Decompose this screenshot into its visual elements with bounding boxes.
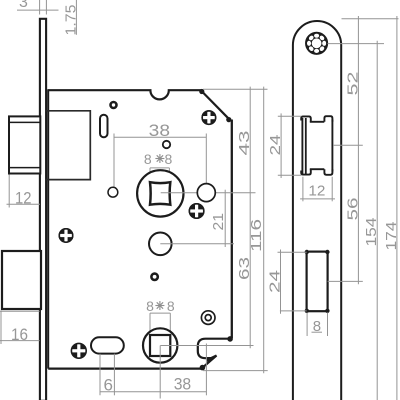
leader from center circle	[160, 243, 234, 245]
dim 24 lower extensions	[278, 252, 307, 311]
lock case right edge end dot	[227, 336, 233, 342]
svg-text:8: 8	[313, 318, 321, 335]
svg-text:16: 16	[11, 325, 28, 344]
lower square center line	[159, 346, 161, 399]
svg-text:63: 63	[236, 257, 253, 280]
double ring hole	[201, 311, 215, 325]
lock case hook cutout	[198, 339, 230, 368]
top edge extension	[203, 88, 268, 90]
latch bolt head	[9, 116, 40, 173]
latch bevel line bottom	[9, 167, 40, 169]
ring hole top	[111, 102, 117, 108]
latch cutout slot left line A	[301, 118, 303, 175]
svg-text:38: 38	[174, 374, 192, 393]
dim 8*8 lower extensions	[150, 313, 170, 335]
dim 174 line	[396, 16, 398, 400]
plate screw leader	[328, 43, 385, 45]
latch cutout slot top cap	[301, 116, 311, 121]
svg-text:24: 24	[266, 270, 283, 293]
phillips screw top-right	[201, 110, 216, 125]
phillips screw bottom	[71, 343, 87, 359]
svg-text:8: 8	[165, 151, 173, 167]
deadbolt head	[2, 251, 41, 309]
lock case chamfer	[203, 92, 230, 119]
latch cutout slot left line B	[305, 118, 307, 175]
svg-text:24: 24	[267, 135, 284, 156]
dim 8 extensions	[307, 313, 327, 337]
svg-text:52: 52	[344, 72, 361, 96]
dim 12 latch extension	[8, 175, 10, 208]
small ring hole	[151, 274, 157, 280]
phillips screw middle	[189, 203, 205, 219]
dim 16 lower line	[0, 340, 40, 342]
dim 8*8 lower text	[146, 298, 175, 314]
svg-text:6: 6	[104, 375, 113, 394]
leader from lower square center	[160, 345, 253, 347]
svg-text:8: 8	[146, 298, 154, 314]
svg-text:12: 12	[308, 182, 325, 199]
svg-text:1.75: 1.75	[63, 5, 80, 36]
lock case bottom corner dot	[200, 365, 206, 371]
latch cutout bottom-right relief	[324, 169, 332, 175]
hole circle right with leader	[197, 184, 215, 202]
spindle square hole upper	[150, 182, 170, 205]
latch cutout bottom edge	[310, 168, 325, 170]
oblong hole vertical	[100, 115, 108, 138]
dim 16 upper line	[0, 310, 40, 312]
svg-text:154: 154	[363, 218, 380, 247]
dim 8*8 upper extensions	[150, 168, 169, 182]
dim 38 top line	[114, 136, 206, 138]
dim 8 line	[312, 331, 323, 333]
oblong hole horizontal	[91, 337, 124, 353]
latch cutout right edge	[331, 120, 333, 172]
lock case front edge	[47, 89, 49, 368]
svg-text:3: 3	[19, 0, 28, 11]
plate screw hole	[306, 33, 327, 54]
lock case chamfer corner dot A	[199, 89, 204, 94]
svg-text:56: 56	[344, 198, 361, 221]
svg-text:38: 38	[149, 121, 170, 140]
strike plate outline	[293, 21, 341, 400]
dim 52-56 line	[357, 16, 359, 284]
dim 38 left extension	[113, 134, 115, 188]
svg-text:116: 116	[248, 219, 265, 252]
dim 3 line	[17, 9, 59, 11]
leader from spindle center	[161, 192, 256, 194]
dim 21 line	[224, 190, 226, 247]
faceplate side bar	[40, 19, 46, 400]
dim 6-38 bottom line	[100, 391, 206, 393]
dim 43-63 line	[249, 87, 251, 349]
latch cutout slot bottom cap	[301, 169, 311, 174]
latch pocket	[45, 111, 90, 180]
svg-text:12: 12	[15, 188, 32, 207]
lock case right edge	[231, 120, 233, 339]
svg-text:8: 8	[144, 151, 152, 167]
svg-text:21: 21	[210, 213, 227, 231]
latch bevel line top	[9, 121, 40, 123]
center circle	[149, 233, 172, 256]
lock case bottom edge	[48, 367, 202, 369]
lock case hook nose fill	[207, 356, 217, 364]
dim 8*8 upper line	[150, 167, 169, 169]
svg-text:174: 174	[383, 222, 400, 251]
spindle square hole lower	[150, 335, 170, 356]
dim 116 line	[263, 87, 265, 374]
dim 24 upper extensions	[278, 116, 302, 175]
dim 8*8 lower line	[150, 312, 170, 314]
spindle circle upper	[137, 170, 183, 216]
phillips screw left	[59, 228, 74, 243]
dim 12 plate extensions	[303, 177, 332, 202]
small circle hole	[163, 141, 170, 148]
dim 24 lower line	[280, 250, 282, 314]
deadbolt cutout	[307, 252, 328, 312]
svg-text:8: 8	[167, 298, 175, 314]
lock case top edge with notch	[48, 90, 202, 99]
dim 12 plate line	[300, 198, 335, 200]
hole circle left	[108, 187, 118, 197]
dim 3 extension lines	[40, 0, 47, 15]
lock case chamfer corner dot B	[226, 117, 231, 122]
dim 12 latch line	[7, 203, 41, 205]
deadbolt cutout leader	[328, 280, 363, 282]
latch cutout top edge	[310, 121, 325, 123]
plate top extension	[342, 18, 399, 20]
dim 1.75 line	[75, 0, 77, 35]
latch cutout leader	[333, 144, 363, 146]
dim 8*8 upper text	[144, 151, 173, 167]
dim 38 right extension	[205, 134, 207, 184]
dim 6-38 bottom extensions	[100, 344, 206, 396]
latch cutout top-right relief	[324, 116, 332, 122]
deadbolt cutout corner dots	[305, 250, 330, 313]
spindle circle lower	[143, 328, 177, 362]
dim 154 line	[376, 41, 378, 400]
dim 24 upper line	[280, 113, 282, 178]
bottom edge extension	[203, 370, 268, 372]
dim 16 left extension	[0, 311, 2, 345]
